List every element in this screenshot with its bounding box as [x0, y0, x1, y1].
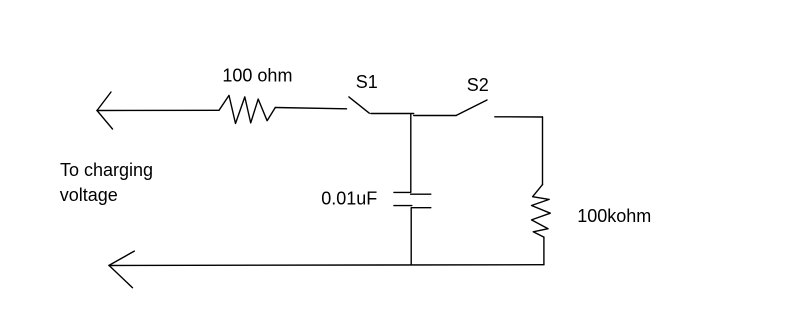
svg-text:To charging: To charging	[60, 160, 153, 180]
arrow: bottom-left return lead arrowhead	[109, 251, 134, 288]
wire: between capacitor junction and S2	[414, 115, 457, 117]
capacitor C1 top plate	[394, 192, 431, 194]
switch S2 blade (open)	[456, 100, 487, 115]
wire: right branch vertical below R2 to bottom wire	[543, 237, 545, 265]
wire: between R1 and switch S1	[275, 108, 346, 109]
wire: top-left horizontal from arrow to resistor R1	[97, 109, 219, 111]
svg-text:S1: S1	[356, 72, 378, 92]
svg-text:voltage: voltage	[60, 185, 118, 205]
svg-text:S2: S2	[467, 75, 489, 95]
wire: right branch vertical down to resistor R2	[542, 117, 544, 185]
capacitor C1 bottom plate	[394, 206, 431, 208]
svg-text:0.01uF: 0.01uF	[321, 189, 377, 209]
arrow: top-left "to charging voltage" lead arrowhead	[97, 92, 113, 129]
resistor R2 (100kohm) vertical zigzag	[532, 185, 551, 238]
wire: capacitor C1 top lead from S1-S2 wire junction	[410, 114, 412, 193]
svg-text:100kohm: 100kohm	[577, 206, 651, 226]
wire: bottom horizontal rail	[109, 264, 544, 267]
switch S1 blade (open)	[349, 97, 369, 113]
wire: between S1 and capacitor junction	[371, 113, 414, 115]
wire: capacitor C1 bottom lead down to bottom wire junction	[410, 208, 412, 265]
svg-text:100 ohm: 100 ohm	[222, 66, 292, 86]
resistor R1 (100 ohm) zigzag	[219, 95, 275, 123]
wire: between S2 and right branch corner	[495, 116, 543, 118]
